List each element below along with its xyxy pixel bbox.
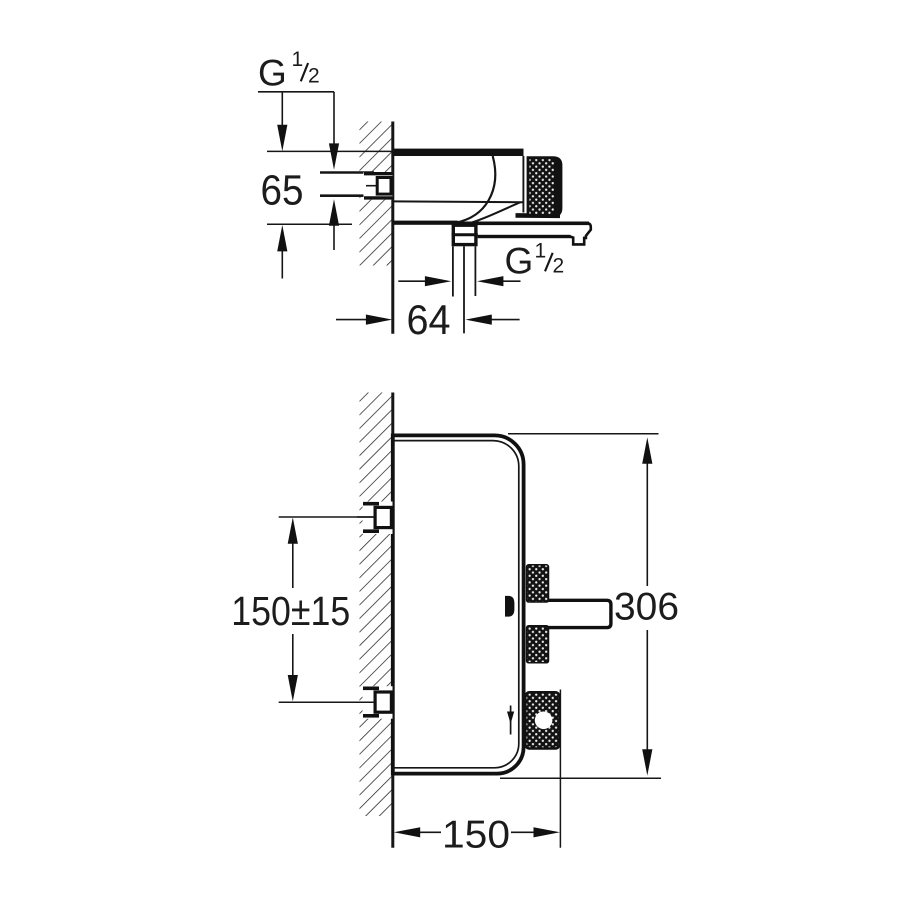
dim 65 upper arrow	[277, 92, 287, 151]
supply pipe (top view)	[318, 174, 377, 195]
wall hatch (top view)	[360, 122, 393, 266]
flow direction arrow (bottom view)	[507, 706, 514, 735]
svg-text:G: G	[258, 53, 287, 94]
pipe centreline extension (top view)	[463, 246, 465, 333]
body bottom edge (top view)	[393, 221, 458, 225]
dimension 64	[336, 296, 520, 343]
knurled handle knob (top view)	[528, 158, 561, 216]
body lower slant line (top view)	[470, 202, 521, 223]
knob bottom edge (top view)	[516, 213, 561, 218]
dimension 150±15	[231, 517, 374, 702]
svg-text:65: 65	[261, 167, 304, 214]
svg-text:150: 150	[442, 814, 510, 857]
dimension 65 extension lines	[267, 150, 392, 152]
svg-text:1: 1	[292, 48, 304, 71]
spout top edge (top view)	[452, 222, 589, 226]
spout bottom edge (top view)	[478, 235, 571, 238]
lower knurled block (bottom view)	[527, 626, 549, 663]
dim 65 lower arrow	[277, 225, 287, 279]
lower mounting lug (bottom view)	[357, 686, 393, 719]
svg-text:306: 306	[614, 585, 679, 628]
vertical pipe below fitting (top view)	[452, 246, 454, 296]
body outline (bottom view)	[393, 435, 524, 773]
svg-text:1: 1	[535, 240, 547, 263]
svg-text:64: 64	[407, 296, 451, 343]
spout stub (bottom view)	[527, 600, 611, 627]
neck lines between body and knob (top view)	[522, 156, 524, 213]
temperature button mark (bottom view)	[505, 596, 514, 617]
svg-text:G: G	[505, 240, 534, 281]
dimension 150	[394, 690, 561, 857]
body front cap curve (top view)	[456, 156, 495, 223]
svg-text:2: 2	[553, 254, 565, 277]
G1/2 leader arrows at pipe (top view)	[329, 92, 339, 250]
dimension 306	[500, 434, 679, 779]
dimension G1/2 (bottom label, top view)	[505, 240, 565, 282]
upper mounting lug (bottom view)	[357, 502, 393, 535]
wall face line (bottom view)	[391, 393, 394, 848]
upper knurled block (bottom view)	[527, 565, 549, 602]
S-union wall fitting (top view)	[364, 172, 393, 200]
diverter knob with button (bottom view)	[525, 692, 559, 748]
svg-text:150±15: 150±15	[231, 588, 350, 634]
wall hatch (bottom view)	[360, 393, 393, 817]
knob solid right cap (top view)	[554, 158, 561, 216]
dimension G1/2 (top label)	[258, 48, 334, 94]
faucet body top edge (top view)	[393, 149, 524, 156]
body underside line (top view)	[393, 200, 523, 203]
svg-text:2: 2	[308, 64, 320, 87]
wall face line (top view)	[391, 122, 394, 334]
spout-pipe fitting (top view)	[452, 225, 478, 244]
spout tip outline (top view)	[570, 223, 591, 244]
G1/2 thread arrows at vertical pipe	[398, 276, 520, 286]
body inner line (bottom view)	[393, 441, 519, 768]
